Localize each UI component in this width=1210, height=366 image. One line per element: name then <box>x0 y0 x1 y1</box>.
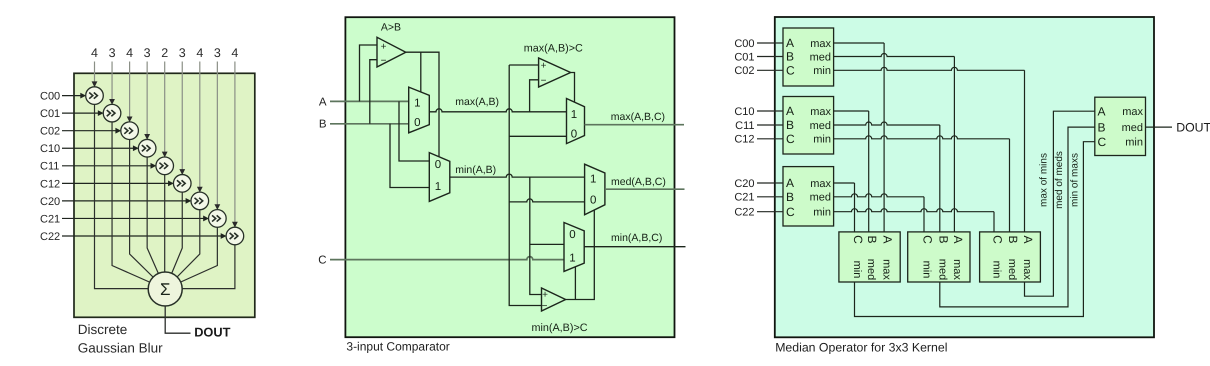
multiplier (shift) circle S5 <box>156 157 174 175</box>
wire C20 into block U3 pin A <box>757 182 783 184</box>
svg-text:A: A <box>951 235 965 243</box>
svg-text:med: med <box>1006 259 1018 280</box>
svg-text:Gaussian Blur: Gaussian Blur <box>78 341 163 356</box>
wire C01 to multiplier S2 <box>62 112 99 114</box>
svg-text:min(A,B): min(A,B) <box>455 164 496 176</box>
svg-text:C: C <box>786 64 795 78</box>
svg-text:med: med <box>865 259 877 280</box>
wire vertical min column down into rotated sorter <box>1009 139 1011 232</box>
summer circle (sigma) <box>148 272 182 306</box>
wire U4.min output down, right and up to output block <box>855 142 1095 317</box>
wire A branch up to comparator U1 + input <box>360 45 378 101</box>
wire multiplier S2 output to summer <box>112 122 165 289</box>
wire coefficient 3 down to multiplier S4 <box>146 62 148 136</box>
multiplier (shift) circle S4 <box>138 139 156 157</box>
rotated sorter block U4 <box>839 232 900 282</box>
wire U5.med output down, right and up to output block <box>940 127 1095 307</box>
wire coefficient 3 down to multiplier S8 <box>216 62 218 206</box>
mux M5 (min of A,B,C) <box>564 223 584 272</box>
svg-text:min: min <box>813 65 831 77</box>
wire U1 output branch down into mux M1 select <box>420 52 422 92</box>
svg-text:B: B <box>319 119 327 131</box>
wire U3.med to column x=924 <box>834 194 924 197</box>
svg-text:C21: C21 <box>40 213 60 225</box>
rotated sorter block U5 <box>908 232 970 282</box>
wire coefficient 3 down to multiplier S2 <box>111 62 113 100</box>
wire multiplier S5 output to summer <box>164 175 166 272</box>
svg-text:max: max <box>810 38 831 50</box>
multiplier (shift) circle S2 <box>103 104 121 122</box>
wire A branch down to mux M2 input 0 <box>399 101 429 161</box>
svg-text:C: C <box>851 235 865 244</box>
svg-text:C01: C01 <box>40 108 60 120</box>
mux M1 (max of A,B) <box>409 87 430 133</box>
wire coefficient 4 down to multiplier S1 <box>94 62 96 83</box>
wire multiplier S6 output to summer <box>165 192 182 289</box>
svg-text:med: med <box>810 51 831 63</box>
svg-text:3: 3 <box>109 46 116 60</box>
wire coefficient 4 down to multiplier S3 <box>129 62 131 118</box>
svg-text:max(A,B)>C: max(A,B)>C <box>524 42 583 54</box>
wire C11 to multiplier S5 <box>62 165 152 167</box>
svg-text:min: min <box>813 207 831 219</box>
svg-text:B: B <box>786 50 794 64</box>
svg-text:max: max <box>951 259 963 280</box>
wire U2 + input horizontal <box>509 64 538 66</box>
svg-text:0: 0 <box>569 229 575 241</box>
multiplier (shift) circle S3 <box>121 122 139 140</box>
wire multiplier S8 output to summer <box>165 227 217 289</box>
output sorter block U7 <box>1095 97 1146 155</box>
wire multiplier S1 output to summer <box>95 104 149 288</box>
wire U3.min to column x=994 <box>834 209 994 212</box>
multiplier (shift) circle S6 <box>173 175 191 193</box>
svg-text:C00: C00 <box>40 91 60 103</box>
svg-text:0: 0 <box>590 194 596 206</box>
svg-text:A: A <box>786 176 794 190</box>
multiplier (shift) circle S8 <box>209 210 227 228</box>
svg-text:C21: C21 <box>734 192 754 204</box>
wire U3 output to selects of M5 and M4 <box>566 210 595 300</box>
wire vertical max column down into rotated sorter <box>883 43 885 232</box>
svg-text:med: med <box>810 120 831 132</box>
multiplier (shift) circle S1 <box>86 87 104 105</box>
wire output med(A,B,C) <box>605 188 685 190</box>
svg-text:0: 0 <box>571 128 577 140</box>
wire C20 to multiplier S7 <box>62 200 187 202</box>
svg-text:3: 3 <box>144 46 151 60</box>
svg-text:C10: C10 <box>40 143 60 155</box>
svg-text:C12: C12 <box>40 178 60 190</box>
svg-text:1: 1 <box>571 109 577 121</box>
sorter block U2 (3-input sort) <box>783 97 834 155</box>
wire B branch up to comparator U1 - input <box>370 60 377 124</box>
svg-text:C: C <box>318 254 326 266</box>
wire input A to mux M1 input 1 <box>330 100 409 102</box>
wire C00 into block U1 pin A <box>757 42 783 44</box>
svg-text:−: − <box>542 301 548 312</box>
wire vertical min column down into rotated sorter <box>1024 70 1026 232</box>
svg-text:min(A,B)>C: min(A,B)>C <box>531 322 587 334</box>
svg-text:C: C <box>786 132 795 146</box>
rotated sorter block U6 <box>980 232 1041 282</box>
wire U2 output to mux M3 select <box>571 73 575 103</box>
svg-text:C: C <box>786 205 795 219</box>
svg-text:min: min <box>851 261 863 279</box>
wire input C to mux M4 input 1 (hop over min(A,B) vertical) <box>330 257 564 260</box>
wire multiplier S3 output to summer <box>130 140 166 290</box>
svg-text:C: C <box>991 235 1005 244</box>
svg-text:A: A <box>786 36 794 50</box>
wire net C vertical: U2 + input down to U3 - input <box>509 65 541 306</box>
wire U1 output to selects of M1 and M2 <box>406 52 439 157</box>
svg-text:max: max <box>1021 259 1033 280</box>
svg-text:max: max <box>1122 106 1143 118</box>
wire C12 into block U2 pin C <box>757 138 783 140</box>
svg-text:B: B <box>865 235 879 243</box>
svg-text:med of meds: med of meds <box>1054 151 1065 209</box>
svg-text:min: min <box>1125 137 1143 149</box>
wire C02 into block U1 pin C <box>757 69 783 71</box>
svg-text:A: A <box>786 104 794 118</box>
svg-text:+: + <box>381 41 387 52</box>
svg-text:0: 0 <box>435 159 441 171</box>
svg-text:B: B <box>1098 120 1106 134</box>
svg-text:C20: C20 <box>40 196 60 208</box>
wire C01 into block U1 pin B <box>757 56 783 58</box>
wire input B to mux M1 input 0 <box>330 123 409 125</box>
wire output min(A,B,C) <box>584 246 685 248</box>
panel box: 3-input Comparator <box>345 17 674 337</box>
svg-text:med: med <box>936 259 948 280</box>
svg-text:0: 0 <box>414 117 420 129</box>
svg-text:A: A <box>881 235 895 243</box>
svg-text:C20: C20 <box>734 178 754 190</box>
wire min(A,B) from M2 to mux M5 input 1 (hop over C vertical) <box>450 174 585 177</box>
svg-text:max(A,B,C): max(A,B,C) <box>611 111 665 123</box>
wire C net to mux M4 input 0 (hop over min(A,B) vertical) <box>509 199 584 202</box>
wire summer output to DOUT <box>165 306 190 333</box>
svg-text:C02: C02 <box>40 126 60 138</box>
svg-text:A>B: A>B <box>381 22 401 34</box>
svg-text:min of maxs: min of maxs <box>1070 153 1081 207</box>
wire U2.max to column x=868.7 <box>834 110 869 112</box>
svg-text:Discrete: Discrete <box>78 322 128 337</box>
svg-text:min: min <box>921 261 933 279</box>
svg-text:C11: C11 <box>735 120 754 132</box>
svg-text:Σ: Σ <box>160 280 171 299</box>
panel box: Median Operator for 3x3 Kernel <box>775 17 1154 337</box>
wire min(A,B) branch down to comparator U3 + input <box>530 177 542 294</box>
svg-text:4: 4 <box>91 46 98 60</box>
wire U2.min to column x=1009.5 <box>834 136 1010 139</box>
wire max(A,B) from M1 to mux M3 input 1 (hop over C vertical) <box>429 109 566 112</box>
svg-text:C12: C12 <box>734 134 754 146</box>
wire U6.max output down, right and up to output block <box>1025 111 1095 296</box>
svg-text:max: max <box>810 178 831 190</box>
svg-text:A: A <box>1021 235 1035 243</box>
wire coefficient 3 down to multiplier S6 <box>181 62 183 171</box>
mux M2 (min of A,B) <box>429 153 450 202</box>
wire U3.max to column x=854.5 <box>834 182 855 184</box>
wire vertical max column down into rotated sorter <box>854 183 856 232</box>
multiplier (shift) circle S7 <box>191 192 209 210</box>
svg-text:med(A,B,C): med(A,B,C) <box>611 176 666 188</box>
mux M3 (max of A,B,C) <box>567 99 585 144</box>
svg-text:C02: C02 <box>734 65 754 77</box>
wire C00 to multiplier S1 <box>62 95 81 97</box>
svg-text:C10: C10 <box>734 106 754 118</box>
svg-text:1: 1 <box>435 181 441 193</box>
svg-text:A: A <box>319 96 327 108</box>
svg-text:+: + <box>541 61 547 72</box>
wire max(A,B) branch up to comparator U2 - input <box>530 80 539 112</box>
wire output max(A,B,C) <box>585 124 685 126</box>
wire C10 to multiplier S4 <box>62 147 134 149</box>
svg-text:max of mins: max of mins <box>1038 153 1049 207</box>
wire C02 to multiplier S3 <box>62 130 116 132</box>
svg-text:3: 3 <box>179 46 186 60</box>
wire C21 to multiplier S8 <box>62 217 204 219</box>
svg-text:4: 4 <box>126 46 133 60</box>
sorter block U1 (3-input sort) <box>783 28 834 86</box>
mux M4 (med of A,B,C) <box>585 164 605 215</box>
svg-text:1: 1 <box>414 98 420 110</box>
svg-text:4: 4 <box>196 46 203 60</box>
svg-text:C01: C01 <box>734 51 754 63</box>
svg-text:C22: C22 <box>734 207 754 219</box>
wire C10 into block U2 pin A <box>757 110 783 112</box>
wire B branch down to mux M2 input 1 <box>390 124 429 188</box>
svg-text:C11: C11 <box>40 161 59 173</box>
svg-text:med: med <box>1122 122 1143 134</box>
svg-text:C: C <box>921 235 935 244</box>
svg-text:+: + <box>542 290 548 301</box>
svg-text:B: B <box>1006 235 1020 243</box>
wire C22 to multiplier S9 <box>62 235 222 237</box>
svg-text:min: min <box>813 134 831 146</box>
multiplier (shift) circle S9 <box>226 227 244 245</box>
svg-text:3-input Comparator: 3-input Comparator <box>346 339 449 353</box>
wire min(A,B) branch to mux M5 input 0 <box>530 243 564 245</box>
svg-text:max: max <box>810 106 831 118</box>
wire U2.med to column x=939.8 <box>834 122 940 125</box>
svg-text:med: med <box>810 192 831 204</box>
wire vertical med column down into rotated sorter <box>923 197 925 232</box>
svg-text:Median Operator for 3x3 Kernel: Median Operator for 3x3 Kernel <box>775 340 947 354</box>
wire coefficient 4 down to multiplier S9 <box>234 62 236 223</box>
wire C21 into block U3 pin B <box>757 196 783 198</box>
wire multiplier S7 output to summer <box>165 210 200 289</box>
wire U7.med to DOUT <box>1146 126 1173 128</box>
svg-text:min: min <box>991 261 1003 279</box>
svg-text:B: B <box>936 235 950 243</box>
svg-text:3: 3 <box>214 46 221 60</box>
wire vertical min column down into rotated sorter <box>993 212 995 232</box>
svg-text:−: − <box>381 56 387 67</box>
wire vertical max column down into rotated sorter <box>868 111 870 232</box>
svg-text:max: max <box>881 259 893 280</box>
panel box: Discrete Gaussian Blur <box>74 73 255 317</box>
wire vertical med column down into rotated sorter <box>953 57 955 232</box>
wire U1.min to column x=1024.5 <box>834 67 1025 70</box>
svg-text:4: 4 <box>231 46 238 60</box>
wire U1.med to column x=954.4 <box>834 54 955 57</box>
svg-text:A: A <box>1098 104 1106 118</box>
svg-text:−: − <box>541 76 547 87</box>
wire U3 output branch up into mux M5 select <box>574 267 576 300</box>
wire C net to mux M3 input 0 <box>509 135 566 137</box>
svg-text:C22: C22 <box>40 231 60 243</box>
svg-text:min(A,B,C): min(A,B,C) <box>611 232 662 244</box>
comparator U1 (A>B) <box>377 37 406 67</box>
svg-text:C00: C00 <box>734 38 754 50</box>
svg-text:DOUT: DOUT <box>194 325 230 340</box>
wire C11 into block U2 pin B <box>757 124 783 126</box>
svg-text:B: B <box>786 118 794 132</box>
svg-text:1: 1 <box>590 174 596 186</box>
wire multiplier S9 output to summer <box>182 245 235 289</box>
wire coefficient 2 down to multiplier S5 <box>164 62 166 153</box>
comparator U3 (min(A,B)>C) <box>542 288 566 311</box>
sorter block U3 (3-input sort) <box>783 167 834 226</box>
wire multiplier S4 output to summer <box>147 157 165 289</box>
svg-text:max(A,B): max(A,B) <box>455 96 499 108</box>
svg-text:DOUT: DOUT <box>1176 120 1210 134</box>
wire vertical med column down into rotated sorter <box>939 125 941 232</box>
wire coefficient 4 down to multiplier S7 <box>199 62 201 188</box>
comparator U2 (max(A,B)>C) <box>539 58 571 87</box>
svg-text:2: 2 <box>161 46 168 60</box>
svg-text:B: B <box>786 190 794 204</box>
svg-text:C: C <box>1098 135 1107 149</box>
wire C22 into block U3 pin C <box>757 211 783 213</box>
svg-text:1: 1 <box>569 253 575 265</box>
wire C12 to multiplier S6 <box>62 182 169 184</box>
wire U1.max to column x=884.1 <box>834 42 885 44</box>
